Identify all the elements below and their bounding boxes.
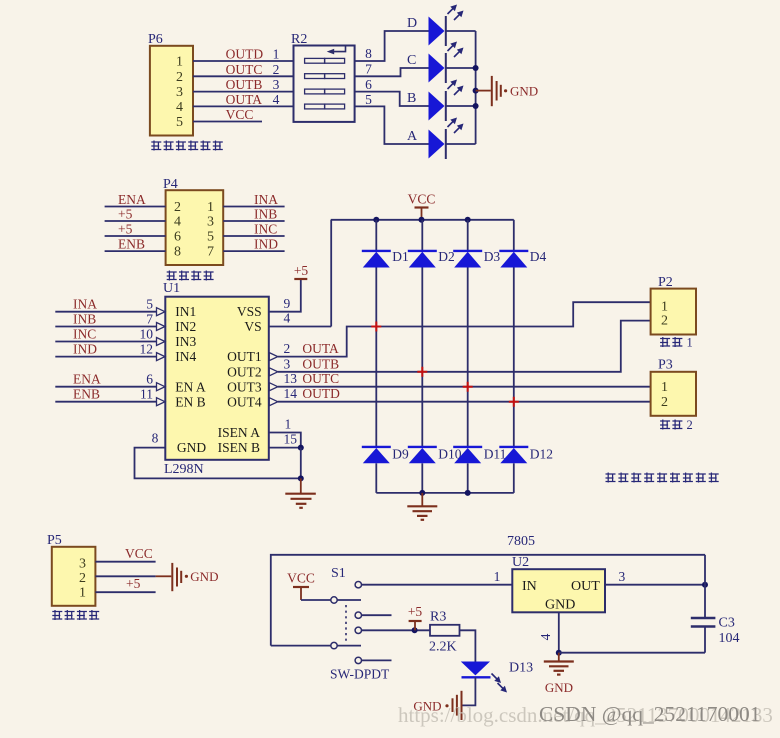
svg-text:12: 12 [140, 342, 154, 357]
caption 电机转动方向指示灯 [606, 473, 719, 483]
wire U1 VS pin 4 to VCC rail riser [269, 220, 331, 327]
svg-text:OUTD: OUTD [226, 47, 264, 62]
wire input ENB pin 11 [55, 387, 165, 406]
svg-text:ENB: ENB [118, 237, 145, 252]
connector P2 [651, 275, 696, 335]
svg-text:D4: D4 [530, 249, 547, 264]
wire diode column 2 [421, 220, 423, 493]
LED D [407, 5, 464, 47]
wire U1 VSS pin 9 [269, 279, 301, 312]
diode D2 [408, 249, 455, 268]
svg-text:2: 2 [79, 571, 86, 586]
svg-text:P2: P2 [658, 275, 673, 290]
svg-text:ISEN A: ISEN A [218, 425, 261, 440]
svg-text:10: 10 [140, 327, 154, 342]
svg-text:C3: C3 [719, 616, 735, 631]
svg-text:GND: GND [545, 598, 575, 613]
svg-text:4: 4 [174, 215, 181, 230]
svg-text:VCC: VCC [287, 571, 315, 586]
svg-text:8: 8 [152, 431, 159, 446]
svg-text:5: 5 [207, 230, 214, 245]
ground (U1 ISEN/GND) [285, 478, 316, 507]
svg-text:1: 1 [285, 417, 292, 432]
svg-text:D3: D3 [484, 249, 501, 264]
LED A [407, 118, 464, 160]
svg-text:2: 2 [661, 314, 668, 329]
wire R2 pin6 to LED B [355, 77, 429, 106]
svg-text:4: 4 [284, 311, 291, 326]
node junction OUTA/D1 [371, 322, 381, 332]
svg-text:ENA: ENA [73, 372, 101, 387]
connector P4 [163, 177, 223, 265]
wire U1 OUTA pin 2 [269, 341, 339, 361]
power +5 (R3 node) [408, 604, 423, 630]
op-amp U1 L298N body [163, 281, 269, 477]
svg-text:VCC: VCC [408, 192, 436, 207]
wire P6 to R2 net OUTB [193, 77, 294, 92]
connector P6 [148, 32, 193, 136]
wire P4 right INC [223, 222, 284, 237]
svg-text:D11: D11 [484, 447, 507, 462]
svg-text:EN A: EN A [175, 380, 206, 395]
node junction OUTD/D4 [509, 397, 519, 407]
svg-text:3: 3 [619, 569, 626, 584]
svg-text:OUT4: OUT4 [227, 395, 262, 410]
ground (diode matrix) [407, 493, 437, 520]
ground GND (D13) [413, 691, 461, 720]
svg-text:1: 1 [661, 299, 668, 314]
wire diode column 1 [375, 220, 377, 493]
wire D13 cathode to ground [463, 677, 476, 705]
connector P5 [47, 533, 95, 606]
ground GND (P5) [172, 563, 218, 591]
wire U1 ISEN B pin 15 [269, 432, 304, 451]
wire input INC pin 10 [55, 327, 165, 346]
svg-text:+5: +5 [118, 222, 133, 237]
wire R2 pin8 to LED D [355, 31, 429, 61]
svg-text:2: 2 [284, 341, 291, 356]
svg-text:2: 2 [687, 418, 693, 432]
wire U1 GND pin 8 return [135, 431, 304, 482]
svg-text:15: 15 [284, 432, 298, 447]
svg-text:IND: IND [254, 237, 278, 252]
svg-text:IN: IN [522, 579, 537, 594]
svg-text:1: 1 [687, 336, 693, 350]
svg-text:IN2: IN2 [175, 319, 196, 334]
svg-text:9: 9 [284, 296, 291, 311]
ground GND (U2) [544, 653, 574, 695]
svg-text:1: 1 [176, 55, 183, 70]
svg-text:1: 1 [273, 47, 280, 62]
svg-text:D12: D12 [530, 447, 553, 462]
svg-text:EN B: EN B [175, 395, 205, 410]
svg-text:2: 2 [176, 70, 183, 85]
power VCC (diode rail) [408, 192, 436, 220]
svg-text:D2: D2 [438, 249, 455, 264]
svg-text:INA: INA [254, 192, 278, 207]
svg-text:13: 13 [284, 371, 298, 386]
svg-text:3: 3 [176, 85, 183, 100]
watermark [398, 702, 773, 727]
svg-text:S1: S1 [331, 566, 346, 581]
svg-text:GND: GND [177, 440, 206, 455]
svg-text:INB: INB [73, 312, 96, 327]
LED D13 [461, 661, 533, 693]
wire VCC top rail [331, 217, 514, 223]
svg-text:14: 14 [284, 386, 298, 401]
diode D10 [408, 447, 462, 464]
svg-text:P3: P3 [658, 358, 673, 373]
LED B [407, 80, 464, 122]
svg-text:OUT3: OUT3 [227, 380, 262, 395]
svg-text:D13: D13 [509, 661, 533, 676]
svg-text:C: C [407, 53, 416, 68]
svg-text:OUTA: OUTA [226, 92, 263, 107]
svg-text:IN3: IN3 [175, 334, 196, 349]
LED C [407, 42, 464, 84]
diode D3 [453, 249, 500, 268]
svg-text:1: 1 [494, 569, 501, 584]
wire P4 left +5 [105, 207, 166, 222]
wire P6 to R2 net OUTA [193, 92, 294, 107]
connector P3 [651, 358, 696, 416]
svg-text:INA: INA [73, 297, 97, 312]
svg-text:1: 1 [207, 200, 214, 215]
svg-text:IN1: IN1 [175, 304, 196, 319]
svg-text:3: 3 [79, 556, 86, 571]
svg-text:OUT2: OUT2 [227, 365, 262, 380]
svg-text:D9: D9 [392, 447, 409, 462]
svg-text:B: B [407, 91, 416, 106]
P6 caption 电机控制信号 [151, 141, 223, 151]
svg-text:4: 4 [538, 633, 553, 640]
svg-text:P5: P5 [47, 533, 62, 548]
resistor R3 2.2K [429, 610, 460, 655]
P4 caption 电机控制 [167, 271, 214, 281]
svg-text:R2: R2 [291, 32, 307, 47]
wire P5 pin2 to GND [95, 575, 171, 577]
svg-text:GND: GND [545, 680, 573, 695]
svg-text:OUTD: OUTD [302, 386, 340, 401]
diode D12 [499, 447, 553, 464]
wire input IND pin 12 [55, 342, 165, 361]
svg-text:+5: +5 [118, 207, 133, 222]
wire P5 pin1 +5 [95, 576, 155, 592]
P3 caption 电机2 [660, 418, 693, 432]
power +5 (U1 VSS) [294, 263, 309, 279]
wire LED common vertical rail [473, 31, 479, 144]
svg-text:P4: P4 [163, 177, 178, 192]
wire net OUTA to P2 pin1 [278, 302, 651, 356]
capacitor C3 104 [691, 555, 740, 653]
wire U1 OUTD pin 14 [269, 386, 340, 406]
diode D9 [362, 447, 409, 464]
svg-text:INC: INC [73, 327, 96, 342]
svg-text:INC: INC [254, 222, 277, 237]
wire U1 OUTC pin 13 [269, 371, 339, 391]
svg-text:8: 8 [174, 245, 181, 260]
svg-text:ENB: ENB [73, 387, 100, 402]
wire diode bottom rail [376, 490, 514, 496]
svg-text:11: 11 [140, 387, 153, 402]
svg-text:3: 3 [273, 77, 280, 92]
svg-text:L298N: L298N [164, 462, 204, 477]
svg-text:1: 1 [661, 380, 668, 395]
wire diode column 4 [513, 220, 515, 493]
svg-text:IND: IND [73, 342, 97, 357]
svg-text:U1: U1 [163, 281, 180, 296]
wire top rail 7805 input loop [271, 534, 705, 646]
wire input ENA pin 6 [55, 372, 165, 391]
wire diode column 3 [467, 220, 469, 493]
svg-text:OUTB: OUTB [226, 77, 263, 92]
wire P4 right INB [223, 207, 284, 222]
wire U1 ISEN A pin 1 [269, 417, 301, 448]
power VCC (switch) [287, 571, 315, 601]
svg-text:CSDN @qq_2521170001: CSDN @qq_2521170001 [539, 702, 760, 726]
svg-text:5: 5 [176, 115, 183, 130]
svg-text:OUTA: OUTA [302, 341, 339, 356]
svg-text:GND: GND [190, 569, 218, 584]
svg-text:VCC: VCC [226, 107, 254, 122]
svg-text:2: 2 [174, 200, 181, 215]
svg-text:OUTC: OUTC [226, 62, 263, 77]
svg-text:2.2K: 2.2K [429, 640, 457, 655]
resistor network R2 [291, 32, 355, 122]
wire LED A cathode to common rail [446, 143, 476, 145]
svg-text:6: 6 [365, 77, 372, 92]
wire P4 right IND [223, 237, 284, 252]
diode D1 [362, 249, 409, 268]
svg-text:3: 3 [207, 215, 214, 230]
wire R2 pin7 to LED C [355, 62, 429, 77]
wire LED B cathode to common rail [446, 105, 476, 107]
svg-text:2: 2 [273, 62, 280, 77]
wire U2 GND pin 4 [538, 612, 562, 655]
wire LED D cathode to common rail [446, 30, 476, 32]
svg-text:OUTC: OUTC [302, 371, 339, 386]
wire S1 throw B1 to R3 [362, 627, 431, 633]
svg-text:R3: R3 [430, 610, 446, 625]
wire P6 to R2 net OUTC [193, 62, 294, 77]
svg-text:4: 4 [273, 92, 280, 107]
wire P5 pin3 VCC [95, 546, 155, 562]
svg-text:ENA: ENA [118, 192, 146, 207]
svg-text:+5: +5 [294, 263, 309, 278]
wire LED C cathode to common rail [446, 67, 476, 69]
wire P4 left ENA [105, 192, 166, 207]
wire S1 throw A1 to U2 IN [362, 569, 513, 585]
wire input INB pin 7 [55, 312, 165, 331]
svg-text:+5: +5 [408, 604, 423, 619]
node junction OUTB/D2 [417, 367, 427, 377]
svg-text:2: 2 [661, 395, 668, 410]
wire P6 to R2 net OUTD [193, 47, 294, 62]
wire R3 to D13 [460, 630, 476, 661]
svg-text:INB: INB [254, 207, 277, 222]
P5 caption 系统电源 [52, 610, 99, 620]
svg-text:6: 6 [174, 230, 181, 245]
switch S1 SW-DPDT [271, 566, 392, 682]
wire P4 left ENB [105, 237, 166, 252]
svg-text:8: 8 [365, 46, 372, 61]
svg-text:OUTB: OUTB [302, 356, 339, 371]
svg-text:ISEN B: ISEN B [218, 440, 260, 455]
wire R2 pin5 to LED A [355, 92, 429, 144]
svg-text:GND: GND [510, 83, 538, 98]
diode D4 [499, 249, 546, 268]
svg-text:5: 5 [365, 92, 372, 107]
svg-text:+5: +5 [126, 576, 141, 591]
svg-text:1: 1 [79, 586, 86, 601]
svg-text:SW-DPDT: SW-DPDT [330, 667, 390, 682]
ground GND (LED rail) [476, 76, 539, 106]
wire P6 pin5 VCC stub [193, 107, 262, 122]
regulator U2 7805 [512, 555, 605, 613]
wire C3 bottom to U2 GND [559, 652, 705, 654]
svg-text:7: 7 [365, 62, 372, 77]
wire P4 left +5 [105, 222, 166, 237]
svg-text:4: 4 [176, 100, 183, 115]
P2 caption 电机1 [660, 336, 693, 350]
svg-text:5: 5 [146, 297, 153, 312]
svg-text:3: 3 [284, 356, 291, 371]
svg-text:VCC: VCC [125, 546, 153, 561]
svg-text:D1: D1 [392, 249, 409, 264]
svg-text:104: 104 [719, 631, 740, 646]
svg-text:A: A [407, 129, 418, 144]
svg-text:OUT: OUT [571, 579, 600, 594]
svg-text:7805: 7805 [507, 534, 535, 549]
svg-text:6: 6 [146, 372, 153, 387]
svg-text:P6: P6 [148, 32, 163, 47]
svg-text:VS: VS [244, 319, 261, 334]
diode D11 [453, 447, 506, 464]
wire U2 OUT pin 3 [605, 569, 708, 588]
svg-text:IN4: IN4 [175, 349, 196, 364]
wire net OUTB to P2 pin2 [278, 321, 651, 372]
wire net OUTD to P3 pin2 [278, 401, 651, 403]
wire input INA pin 5 [55, 297, 165, 316]
svg-text:D: D [407, 16, 417, 31]
svg-text:7: 7 [207, 245, 214, 260]
node junction OUTC/D3 [463, 382, 473, 392]
svg-text:U2: U2 [512, 555, 529, 570]
svg-text:VSS: VSS [237, 304, 262, 319]
wire U1 OUTB pin 3 [269, 356, 339, 376]
wire net OUTC to P3 pin1 [278, 386, 651, 388]
svg-text:OUT1: OUT1 [227, 349, 262, 364]
wire P4 right INA [223, 192, 284, 207]
svg-text:7: 7 [146, 312, 153, 327]
